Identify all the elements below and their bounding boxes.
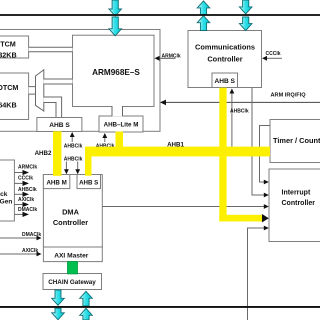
svg-text:Clock: Clock <box>0 191 8 198</box>
cyan arrow into ARM (above line) <box>109 0 122 16</box>
CHAIN Gateway <box>43 274 102 290</box>
wire DMA to interrupt controller <box>102 204 268 209</box>
svg-text:AXIClk: AXIClk <box>18 197 34 203</box>
bus AHB2 yellow <box>53 131 62 176</box>
svg-text:32KB: 32KB <box>0 51 17 60</box>
wire bottom input to interrupt controller <box>248 226 269 320</box>
cyan arrow up from comm (below line) <box>197 16 210 31</box>
ARM968 subsystem outer box <box>0 30 160 132</box>
svg-text:CCClk: CCClk <box>266 51 281 57</box>
wire clock gen DMAClk stub <box>14 207 37 217</box>
wire AHBClk into AHB-Lite M <box>96 133 115 149</box>
bus elbow to interrupt yellow <box>219 215 263 222</box>
wire comm controller to interrupt controller <box>252 88 269 198</box>
svg-text:64KB: 64KB <box>0 100 17 109</box>
svg-text:ITCM: ITCM <box>0 39 16 48</box>
cyan arrow down into comm (below line) <box>239 17 252 31</box>
wire AHBClk into comm AHB S <box>230 89 249 148</box>
svg-text:Controller: Controller <box>282 200 316 207</box>
svg-text:Controller: Controller <box>207 55 242 64</box>
svg-text:Interrupt: Interrupt <box>282 190 311 197</box>
wire AHBClk into cpu AHB S <box>64 132 83 149</box>
wire ITCM to ARM bus <box>29 47 73 51</box>
bottom boundary line <box>0 306 320 308</box>
AXI Master <box>43 247 102 262</box>
wire AXIClk input to AXI Master <box>0 248 42 256</box>
svg-text:AHB M: AHB M <box>46 179 66 186</box>
svg-text:AHB–Lite M: AHB–Lite M <box>104 122 139 129</box>
wire clock gen CCClk stub <box>14 176 33 187</box>
wire timer to interrupt controller <box>260 126 271 185</box>
cyan arrow down into comm (above line) <box>239 0 252 14</box>
green CHAIN link bar <box>68 262 78 274</box>
svg-text:ARMClk: ARMClk <box>162 53 181 59</box>
cpu ARM968E-S <box>73 35 155 106</box>
wire mux to ARM bus <box>44 79 73 84</box>
AHB S (dma) <box>77 175 101 189</box>
wire DMAClk input to DMA <box>0 232 42 240</box>
wire ARM IRQ/FIQ <box>160 92 320 105</box>
cyan arrow up into CHAIN (above bottom line) <box>80 291 93 306</box>
svg-text:AHB S: AHB S <box>214 78 235 85</box>
svg-text:AHB2: AHB2 <box>35 150 52 157</box>
wire ARM to AHB-Lite M stub <box>112 106 123 116</box>
cyan arrow down from CHAIN (below bottom line) <box>52 308 65 320</box>
Interrupt Controller <box>269 169 320 242</box>
svg-text:AHBClk: AHBClk <box>64 143 83 149</box>
ITCM 32KB <box>0 36 29 60</box>
AHB-Lite M (cpu subsystem) <box>99 116 143 132</box>
svg-text:Timer / Counter: Timer / Counter <box>273 136 320 145</box>
svg-text:DMAClk: DMAClk <box>18 207 37 213</box>
wire clock gen ARMClk stub <box>14 165 37 176</box>
wire AHBClk into AHB M / AHB S (dma) <box>64 156 83 174</box>
Timer / Counter <box>270 120 320 163</box>
svg-text:AHBClk: AHBClk <box>230 109 249 115</box>
wire clock gen AXIClk stub <box>14 197 34 207</box>
wire mux to AHB S L-bus <box>44 97 62 118</box>
svg-text:DMAClk: DMAClk <box>22 232 41 238</box>
wire ARMClk into ARM <box>155 53 181 60</box>
svg-text:Controller: Controller <box>53 218 88 227</box>
DMA Controller <box>43 175 102 248</box>
svg-text:AHBClk: AHBClk <box>18 187 37 193</box>
DTCM 64KB <box>0 73 29 120</box>
bus AHB1 yellow horizontal <box>85 147 270 157</box>
svg-text:AXI Master: AXI Master <box>54 253 89 260</box>
AHB S (cpu subsystem) <box>37 118 82 132</box>
svg-text:Gen: Gen <box>0 199 12 206</box>
cyan arrow into ARM (below line) <box>109 17 122 36</box>
wire clock gen AHBClk stub <box>14 187 37 197</box>
AHB S (comm controller) <box>212 73 238 88</box>
svg-text:AXIClk: AXIClk <box>22 248 38 254</box>
svg-text:DTCM: DTCM <box>0 83 18 92</box>
cyan arrow down from CHAIN (above bottom line) <box>52 290 65 305</box>
mux DTCM <box>36 70 44 111</box>
Communications Controller <box>188 31 262 88</box>
top boundary line <box>0 14 320 16</box>
cyan arrow up into CHAIN (below bottom line) <box>80 308 93 320</box>
svg-text:CCClk: CCClk <box>18 176 33 182</box>
bus AHB-Lite M drop yellow <box>116 132 124 152</box>
svg-text:DMA: DMA <box>62 208 79 217</box>
bus drop to AHB S dma yellow <box>85 147 92 176</box>
svg-text:AHB S: AHB S <box>79 179 98 186</box>
AHB M (dma) <box>43 175 69 189</box>
svg-text:CHAIN Gateway: CHAIN Gateway <box>48 279 96 286</box>
svg-text:AHB1: AHB1 <box>167 142 184 149</box>
wire DTCM port <box>29 87 36 95</box>
Clock Gen <box>0 160 14 221</box>
svg-text:ARM968E–S: ARM968E–S <box>92 68 140 77</box>
wire CCClk into comm controller <box>262 51 282 61</box>
svg-text:ARMClk: ARMClk <box>18 165 37 171</box>
bus comm AHB S vertical yellow <box>219 88 226 222</box>
cyan arrow up from comm (above line) <box>197 1 210 15</box>
svg-text:ARM IRQ/FIQ: ARM IRQ/FIQ <box>271 92 307 98</box>
svg-text:AHB S: AHB S <box>49 122 70 129</box>
arrowhead yellow bus into interrupt <box>262 214 269 222</box>
svg-text:Communications: Communications <box>195 43 255 52</box>
